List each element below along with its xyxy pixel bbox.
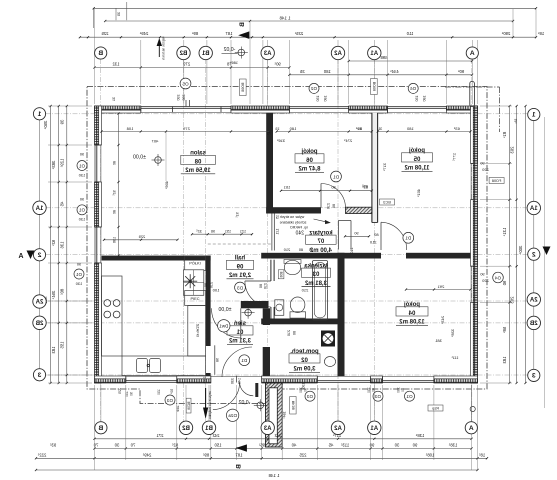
svg-text:O1: O1 — [406, 394, 413, 399]
svg-text:80⁵: 80⁵ — [59, 289, 64, 296]
dim row top 1 (1 148) — [105, 20, 513, 22]
svg-text:210: 210 — [326, 203, 330, 209]
svg-text:69⁵: 69⁵ — [355, 126, 361, 131]
extension line bottom x=236.3 — [235, 385, 237, 460]
exterior wall top segment 4 — [446, 106, 477, 110]
svg-text:2: 2 — [532, 251, 536, 258]
window tag O4 right — [493, 272, 504, 283]
svg-text:225: 225 — [101, 31, 109, 36]
exterior wall left segment 1 — [95, 106, 99, 145]
svg-text:444⁵: 444⁵ — [390, 69, 399, 74]
svg-text:271: 271 — [156, 433, 164, 438]
extension line left y=227 — [48, 226, 92, 228]
dim row top 0 — [94, 7, 536, 9]
svg-text:183: 183 — [51, 347, 56, 355]
exterior wall bottom segment 1 — [95, 379, 126, 383]
svg-text:PÓŁKI: PÓŁKI — [189, 261, 200, 266]
svg-text:80: 80 — [372, 388, 376, 392]
svg-text:08: 08 — [194, 159, 201, 165]
door D1 pokoj04 — [380, 222, 382, 250]
svg-text:65⁵: 65⁵ — [362, 185, 368, 189]
svg-text:383⁵: 383⁵ — [51, 161, 56, 170]
svg-text:2: 2 — [37, 252, 41, 259]
grid bubble 3 left — [33, 369, 45, 381]
svg-text:80: 80 — [259, 284, 263, 288]
svg-text:O2: O2 — [310, 86, 317, 91]
svg-text:290⁵: 290⁵ — [501, 31, 510, 36]
exterior wall top segment 1 — [95, 106, 141, 110]
dim col right C — [525, 106, 527, 383]
svg-text:129⁵: 129⁵ — [59, 159, 64, 168]
section mark B bottom — [236, 444, 247, 451]
level line top — [222, 52, 238, 54]
extension line right y=163.4 — [480, 162, 512, 164]
svg-text:BO08: BO08 — [241, 83, 245, 92]
window tag O1 left mid — [77, 205, 87, 215]
svg-text:40: 40 — [291, 443, 296, 448]
bubble stem bottom x=209.0 — [208, 385, 210, 422]
extension line left y=106 — [48, 105, 92, 107]
grid line 2A horizontal — [46, 300, 529, 302]
svg-text:15: 15 — [275, 215, 279, 219]
svg-text:92⁵: 92⁵ — [51, 240, 56, 247]
grid line B2 vertical — [183, 59, 185, 421]
svg-text:3,31 m2: 3,31 m2 — [228, 339, 251, 345]
extension line left y=182 — [48, 181, 92, 183]
svg-text:138⁵: 138⁵ — [415, 433, 424, 438]
window tag O3 bottom pokoj04 left — [305, 391, 315, 401]
interior wall korytarz south west part — [261, 253, 381, 259]
roof corner step dashed NE — [445, 86, 500, 88]
svg-text:D1: D1 — [333, 174, 339, 179]
svg-text:177⁵: 177⁵ — [452, 153, 457, 162]
svg-text:274⁵: 274⁵ — [343, 138, 352, 143]
interior wall korytarz north west part — [266, 207, 321, 213]
svg-text:B: B — [98, 50, 103, 57]
extension line top x=446.4 — [445, 40, 447, 104]
svg-text:B: B — [236, 464, 243, 469]
pokoj06 interior dim chain — [277, 131, 372, 133]
interior wall kitchen right upper — [206, 256, 211, 346]
entrance door opening bottom wall — [211, 376, 262, 378]
extension line top x=513 short — [512, 9, 514, 38]
svg-text:80: 80 — [401, 388, 405, 392]
window top O5 (terrace door) — [141, 106, 231, 108]
svg-text:249⁵: 249⁵ — [142, 452, 151, 457]
svg-text:18¹: 18¹ — [514, 118, 518, 124]
svg-text:A: A — [469, 425, 474, 432]
exterior wall bottom segment 4 — [371, 379, 383, 383]
grid bubble A bottom — [465, 422, 477, 434]
grid bubble 2A right — [527, 293, 540, 306]
svg-text:89⁵: 89⁵ — [192, 31, 199, 36]
level mark top -0,02 — [238, 49, 245, 56]
svg-text:63⁵: 63⁵ — [453, 126, 459, 131]
window right pokoj 04 O4 — [476, 266, 478, 302]
extension line top x=338.0 — [337, 40, 339, 104]
extension line bottom x=282.2 — [281, 385, 283, 460]
door tag D2a entrance — [226, 409, 238, 421]
svg-text:2B: 2B — [35, 321, 43, 327]
svg-text:131⁵: 131⁵ — [502, 228, 507, 237]
svg-text:O3: O3 — [166, 398, 173, 403]
svg-text:A: A — [470, 50, 475, 57]
svg-text:sień: sień — [234, 321, 246, 327]
kitchen POLKI shelf box — [185, 256, 206, 271]
kitchen counter left — [102, 276, 123, 356]
svg-text:80: 80 — [113, 161, 117, 165]
svg-text:wyłaz na strych: wyłaz na strych — [280, 215, 305, 219]
extension line bottom x=317.3 — [316, 385, 318, 460]
extension line bottom x=125.8 — [125, 385, 127, 460]
extension line right y=302.4 — [480, 301, 512, 303]
svg-text:2A: 2A — [529, 298, 537, 304]
svg-text:2A: 2A — [35, 300, 43, 306]
svg-text:wejście do budynku: wejście do budynku — [208, 391, 212, 419]
svg-text:407: 407 — [151, 138, 158, 143]
svg-text:316⁵: 316⁵ — [276, 138, 285, 143]
svg-text:161: 161 — [284, 185, 291, 190]
svg-text:108⁵: 108⁵ — [425, 452, 434, 457]
svg-text:93⁵: 93⁵ — [50, 443, 57, 448]
svg-text:220: 220 — [481, 278, 488, 283]
grid bubble B bottom — [95, 422, 107, 434]
svg-text:180: 180 — [323, 69, 331, 74]
svg-text:203: 203 — [509, 147, 514, 155]
bathroom toilet — [290, 297, 305, 313]
window tag O4 top — [408, 83, 418, 93]
svg-text:O1: O1 — [75, 272, 82, 277]
bubble stem bottom x=471.5 — [471, 385, 473, 422]
svg-text:155: 155 — [59, 342, 64, 350]
svg-text:A2: A2 — [334, 51, 342, 57]
svg-text:BC3: BC3 — [383, 201, 390, 205]
extension line top x=206.9 — [206, 40, 208, 104]
bubble stem bottom x=338.0 — [337, 385, 339, 422]
box label BC3 — [380, 199, 395, 205]
svg-text:350⁵: 350⁵ — [43, 121, 48, 130]
svg-text:300⁵: 300⁵ — [518, 246, 523, 255]
svg-text:A2: A2 — [334, 426, 342, 432]
downspout pipe NE — [470, 82, 475, 107]
svg-text:B1: B1 — [201, 51, 209, 57]
door tag D1 kitchen — [239, 355, 250, 366]
svg-text:8,47 m2: 8,47 m2 — [298, 167, 321, 173]
svg-text:225: 225 — [139, 234, 146, 239]
extension line right y=106 — [480, 105, 512, 107]
svg-text:B: B — [239, 22, 246, 27]
svg-text:np. FAKRO: np. FAKRO — [290, 226, 308, 230]
level mark bottom -0,02 — [257, 402, 264, 409]
kitchen PIEC stove box — [185, 291, 206, 306]
svg-text:140: 140 — [237, 378, 241, 384]
interior wall hall/sien — [241, 301, 269, 308]
svg-text:180: 180 — [324, 95, 328, 101]
svg-text:225: 225 — [118, 388, 122, 394]
svg-text:4,00 m2: 4,00 m2 — [309, 248, 332, 254]
bathroom sink — [284, 260, 300, 274]
svg-text:80: 80 — [293, 331, 297, 335]
exterior wall bottom segment 5 — [434, 379, 478, 383]
svg-text:130: 130 — [396, 387, 400, 393]
exterior wall right segment 2 — [473, 200, 477, 267]
extension line top x=472.3 — [471, 40, 473, 104]
svg-text:498: 498 — [380, 55, 388, 60]
dim col right B — [516, 106, 518, 383]
grid bubble A top — [466, 47, 478, 59]
svg-text:D1: D1 — [241, 358, 247, 363]
svg-text:80: 80 — [204, 283, 208, 287]
svg-text:80: 80 — [113, 210, 117, 214]
svg-text:32⁵: 32⁵ — [196, 230, 202, 234]
svg-text:B2: B2 — [182, 426, 190, 432]
extension line bottom x=477.5 — [477, 385, 479, 470]
svg-text:11,08 m2: 11,08 m2 — [404, 166, 430, 172]
svg-text:A3: A3 — [263, 51, 271, 57]
extension line top x=94.5 — [94, 9, 96, 104]
svg-text:06: 06 — [306, 158, 313, 164]
svg-text:wejście na teren: wejście na teren — [162, 36, 166, 59]
svg-text:O3: O3 — [374, 394, 381, 399]
svg-text:130: 130 — [157, 389, 161, 395]
door D1 kitchen — [214, 345, 216, 374]
svg-text:187: 187 — [225, 31, 233, 36]
svg-text:222⁵: 222⁵ — [37, 452, 46, 457]
svg-text:132: 132 — [112, 61, 120, 66]
svg-text:3: 3 — [37, 372, 41, 379]
grid line 1A horizontal — [46, 207, 529, 209]
svg-text:18⁵: 18⁵ — [479, 452, 486, 457]
door D2a entrance — [236, 376, 238, 383]
extension line right y=266.2 — [480, 265, 512, 267]
svg-text:130: 130 — [125, 391, 129, 397]
grid bubble 3 right — [528, 369, 540, 381]
grid line 2B horizontal — [46, 322, 529, 324]
box label Rsp bottom — [428, 405, 443, 411]
svg-text:D2a: D2a — [228, 413, 237, 418]
bubble stem bottom x=374.3 — [373, 385, 375, 422]
svg-text:B2: B2 — [179, 51, 187, 57]
dim row top 3 right (498) — [349, 60, 472, 62]
svg-text:210: 210 — [369, 240, 376, 245]
bubble stem bottom x=267.7 — [267, 385, 269, 422]
svg-text:406⁵: 406⁵ — [164, 181, 169, 190]
svg-text:2B: 2B — [529, 321, 537, 327]
exterior wall left segment 3 — [95, 263, 99, 383]
svg-text:±0,00: ±0,00 — [133, 154, 146, 160]
svg-text:150: 150 — [415, 95, 419, 101]
window top pokoj 05 — [388, 106, 447, 108]
svg-text:81⁵: 81⁵ — [502, 132, 507, 139]
door D1 pokoj06 — [320, 184, 322, 209]
interior wall kitchen right stub — [206, 373, 211, 376]
exterior wall left segment 2 — [95, 182, 99, 227]
extension line top x=231.0 — [230, 40, 232, 104]
salon korytarz open boundary — [271, 214, 273, 251]
interior wall korytarz south east part — [406, 253, 471, 259]
grid bubble 1A left — [33, 201, 46, 214]
box label RK08 porch — [290, 397, 296, 415]
svg-text:O1: O1 — [78, 163, 85, 168]
extension line left y=375 — [48, 374, 92, 376]
kitchen cooktop burners — [104, 300, 111, 307]
pomtech boiler — [321, 331, 335, 347]
extension line left y=301 — [48, 300, 92, 302]
grid bubble B2 bottom — [179, 421, 192, 434]
svg-text:D1: D1 — [405, 236, 411, 241]
svg-text:30: 30 — [394, 443, 399, 448]
interior wall pokoj04 left — [338, 253, 345, 376]
dim col left B — [58, 106, 60, 383]
extension line right y=199.7 — [480, 199, 512, 201]
svg-text:90: 90 — [369, 443, 374, 448]
svg-text:2,91 m2: 2,91 m2 — [228, 273, 251, 279]
svg-text:45: 45 — [59, 202, 64, 207]
svg-text:-0,02: -0,02 — [223, 47, 235, 53]
svg-text:121: 121 — [240, 230, 246, 234]
grid bubble 2B left — [33, 316, 46, 329]
svg-text:1A: 1A — [35, 206, 43, 212]
bathroom washing machine — [275, 300, 284, 316]
svg-text:A: A — [18, 253, 23, 260]
dim row bottom A — [95, 438, 472, 440]
svg-text:1 148: 1 148 — [279, 15, 291, 20]
svg-text:31: 31 — [112, 97, 116, 101]
salon interior dim chain — [102, 131, 270, 133]
sheet frame line right — [544, 117, 546, 408]
svg-text:19,56 m2: 19,56 m2 — [185, 168, 211, 174]
grid bubble A1 top — [368, 46, 381, 59]
svg-text:136: 136 — [113, 237, 117, 243]
svg-text:58⁵: 58⁵ — [502, 327, 507, 334]
svg-text:50⁵: 50⁵ — [170, 389, 174, 395]
svg-text:98: 98 — [216, 358, 220, 362]
svg-text:90: 90 — [304, 388, 308, 392]
attic hatch arrow — [314, 219, 328, 222]
grid line 2 horizontal — [46, 254, 529, 256]
svg-text:225¹: 225¹ — [294, 31, 303, 36]
svg-text:03: 03 — [312, 272, 319, 278]
svg-text:90⁵: 90⁵ — [274, 61, 281, 66]
svg-text:BO08: BO08 — [372, 82, 376, 91]
svg-text:01: 01 — [236, 330, 243, 336]
salon left interior dim chain — [118, 114, 120, 256]
dim col left A — [50, 106, 52, 383]
exterior wall bottom segment 2 — [177, 379, 211, 383]
box label BO08 top second — [371, 79, 378, 95]
svg-text:150: 150 — [214, 443, 222, 448]
window tag O5 top — [180, 78, 191, 89]
hall salon open boundary dashed — [208, 243, 272, 245]
svg-text:SZAFKI: SZAFKI — [196, 324, 201, 338]
extension line top x=183.8 — [183, 40, 185, 104]
svg-text:1: 1 — [37, 111, 41, 118]
extension line left y=383 — [48, 382, 92, 384]
grid bubble 2A left — [33, 295, 46, 308]
interior wall korytarz north east part — [346, 207, 372, 213]
extension line bottom x=261.7 — [261, 385, 263, 460]
svg-text:200⁵: 200⁵ — [203, 376, 207, 384]
svg-text:łazienka: łazienka — [304, 263, 328, 269]
extension line top x=289.4 — [288, 40, 290, 104]
svg-text:D3: D3 — [237, 285, 243, 290]
svg-text:70: 70 — [130, 443, 135, 448]
svg-text:pom.tech.: pom.tech. — [290, 349, 319, 355]
svg-text:90: 90 — [354, 232, 358, 236]
grid line B vertical — [100, 59, 102, 421]
grid line A vertical — [471, 59, 473, 421]
pokoj04 interior dim chain — [406, 289, 471, 291]
svg-text:07: 07 — [317, 239, 324, 245]
svg-text:136: 136 — [59, 242, 64, 250]
svg-text:-0,02: -0,02 — [238, 400, 250, 406]
porch column — [266, 383, 283, 447]
grid bubble 2 left — [33, 249, 45, 261]
svg-text:130: 130 — [75, 281, 82, 286]
extension line top x=250.0 — [249, 22, 251, 104]
window tag O3 bottom kitchen — [165, 395, 175, 405]
grid bubble 1A right — [527, 201, 540, 214]
svg-text:30: 30 — [114, 443, 119, 448]
window right pokoj 05 — [476, 163, 478, 199]
svg-text:330: 330 — [231, 378, 235, 384]
box label BC08 kitchen bottom — [186, 398, 191, 413]
pokoj06 lower dim chain — [281, 190, 372, 192]
section mark A right — [543, 247, 551, 256]
svg-text:328⁵: 328⁵ — [450, 329, 455, 338]
svg-text:108: 108 — [126, 126, 133, 131]
entry arrow bottom — [205, 388, 207, 409]
svg-text:35: 35 — [117, 12, 121, 16]
door tag D1 pokoj06 — [331, 171, 342, 182]
svg-text:243⁵: 243⁵ — [440, 316, 445, 325]
svg-text:korytarz: korytarz — [309, 230, 332, 236]
svg-text:210: 210 — [350, 248, 354, 254]
grid bubble 2 right — [528, 248, 540, 260]
window top pokoj 06 — [289, 106, 348, 108]
svg-text:pokój: pokój — [409, 148, 425, 154]
extension line bottom x=471.5 — [471, 385, 473, 470]
extension line bottom x=94.5 — [94, 385, 96, 470]
door tag D1 pokoj04 — [403, 232, 414, 243]
kitchen sink — [137, 359, 148, 373]
svg-text:82⁵: 82⁵ — [172, 443, 179, 448]
svg-text:330: 330 — [177, 94, 181, 100]
extension line top x=140.8 — [140, 40, 142, 104]
grid bubble A2 top — [331, 46, 344, 59]
svg-text:210: 210 — [301, 288, 308, 293]
svg-text:15: 15 — [275, 127, 279, 131]
window tag O1 left upper — [77, 161, 87, 171]
svg-text:02: 02 — [301, 358, 308, 364]
extension line bottom x=176.8 — [176, 385, 178, 460]
svg-text:401⁵: 401⁵ — [416, 189, 421, 198]
svg-text:220: 220 — [481, 167, 488, 172]
dim row top 3 left — [95, 67, 290, 69]
svg-text:210: 210 — [287, 330, 291, 336]
door D2 sien/hall — [240, 308, 242, 338]
window tag O1 left lower — [74, 269, 84, 279]
interior wall sien/pomtech lower — [263, 347, 270, 376]
svg-text:A1: A1 — [370, 51, 378, 57]
svg-text:45: 45 — [328, 443, 333, 448]
extension line bottom x=433.9 — [433, 385, 435, 460]
svg-text:O4: O4 — [494, 275, 501, 280]
dim row bottom C — [36, 457, 487, 459]
svg-text:1 148: 1 148 — [268, 473, 280, 478]
dim row bottom D — [36, 469, 478, 471]
svg-text:B1: B1 — [205, 426, 213, 432]
